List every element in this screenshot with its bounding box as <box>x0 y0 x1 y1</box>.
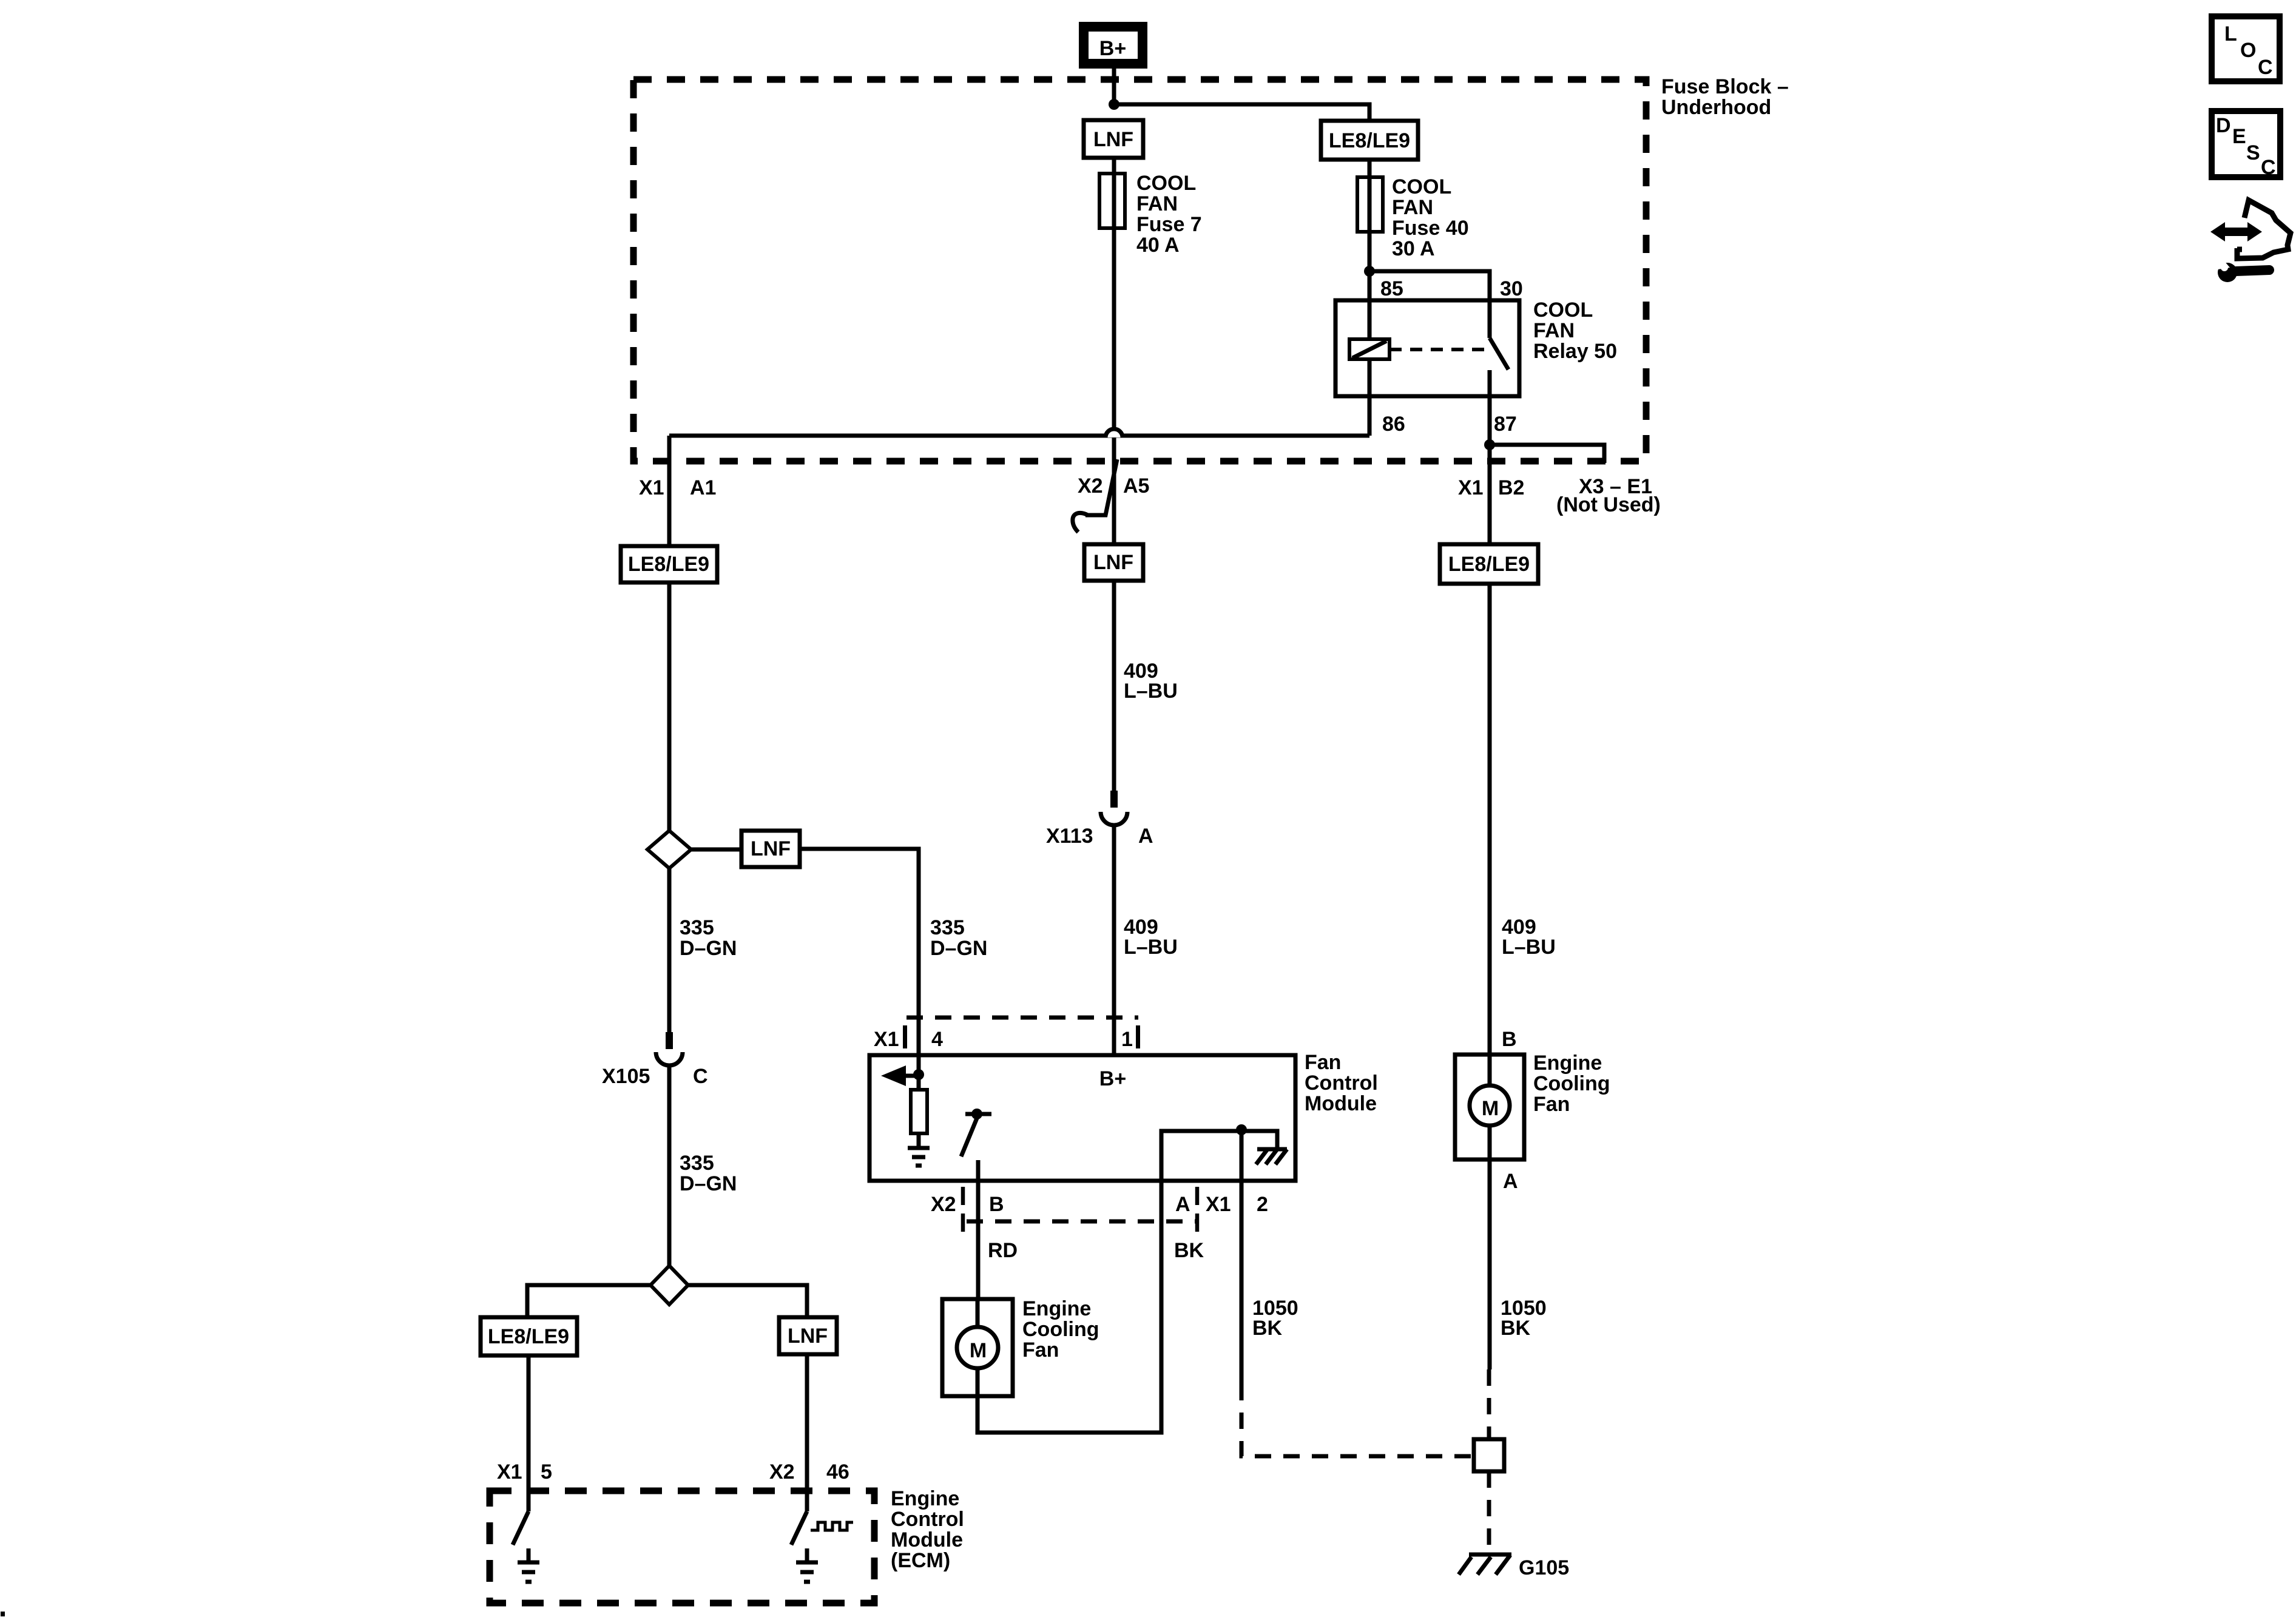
svg-text:(Not Used): (Not Used) <box>1556 493 1661 516</box>
fuse F7 element <box>1099 174 1125 228</box>
svg-text:COOL: COOL <box>1392 175 1451 198</box>
svg-text:4: 4 <box>931 1028 943 1051</box>
wire LNF to ECM <box>805 1354 809 1511</box>
svg-text:BK: BK <box>1501 1317 1531 1340</box>
svg-text:Relay 50: Relay 50 <box>1533 340 1617 363</box>
svg-text:Fan: Fan <box>1533 1093 1570 1116</box>
node FCM pin4 junction <box>913 1069 924 1080</box>
ground ECM right <box>805 1548 809 1562</box>
svg-text:A5: A5 <box>1123 474 1149 498</box>
svg-text:C: C <box>2261 156 2276 179</box>
ground ECM left <box>527 1548 531 1562</box>
splice diamond S2 <box>650 1266 688 1305</box>
svg-text:Fuse 40: Fuse 40 <box>1392 217 1469 240</box>
svg-text:A1: A1 <box>690 476 716 499</box>
connector label LNF (splice branch) <box>741 831 800 867</box>
svg-text:46: 46 <box>826 1460 849 1484</box>
icon harness outline <box>2237 200 2291 258</box>
wire FCM pin 2 down <box>1240 1181 1244 1384</box>
connector label LNF (ECM branch) <box>779 1317 837 1354</box>
node B+ split junction <box>1109 99 1119 110</box>
svg-text:85: 85 <box>1380 277 1403 300</box>
wire right fan A down <box>1488 1126 1492 1369</box>
svg-text:Control: Control <box>891 1508 964 1531</box>
svg-text:Control: Control <box>1305 1072 1378 1095</box>
svg-text:Fan: Fan <box>1022 1338 1059 1362</box>
wire FCM B to left fan <box>976 1181 981 1299</box>
ECM switch right (PWM) <box>791 1511 807 1545</box>
svg-text:30: 30 <box>1500 277 1523 300</box>
svg-text:LNF: LNF <box>1093 551 1133 574</box>
svg-text:87: 87 <box>1494 413 1517 436</box>
svg-text:Fan: Fan <box>1305 1051 1341 1074</box>
wire B+ down <box>1112 69 1116 104</box>
ground G105 <box>1469 1553 1511 1557</box>
svg-text:RD: RD <box>988 1239 1018 1262</box>
svg-text:FAN: FAN <box>1392 196 1433 219</box>
svg-text:X113: X113 <box>1046 825 1093 848</box>
svg-text:G105: G105 <box>1519 1556 1569 1579</box>
svg-text:X105: X105 <box>602 1065 650 1088</box>
svg-text:S: S <box>2246 141 2260 164</box>
svg-text:335: 335 <box>680 1152 714 1175</box>
wire LE8/LE9 to ECM <box>527 1355 531 1511</box>
svg-text:X1: X1 <box>497 1460 522 1484</box>
svg-text:Cooling: Cooling <box>1533 1072 1610 1095</box>
wire relay pin 86 <box>1368 359 1372 436</box>
svg-text:(ECM): (ECM) <box>891 1549 950 1572</box>
svg-text:B: B <box>989 1193 1004 1216</box>
relay coil-contact dashed link <box>1389 348 1484 351</box>
node fuse40/relay85 junction <box>1364 266 1375 277</box>
svg-text:FAN: FAN <box>1136 192 1178 215</box>
svg-text:B: B <box>1502 1028 1517 1051</box>
resistor inside FCM <box>917 1075 921 1090</box>
motor engine cooling fan right <box>1455 1055 1524 1160</box>
svg-text:B+: B+ <box>1099 1067 1126 1090</box>
svg-text:A: A <box>1138 825 1153 848</box>
svg-text:30 A: 30 A <box>1392 237 1435 260</box>
connector label LE8/LE9 (B2 branch) <box>1440 544 1538 584</box>
icon LOC box <box>2212 16 2280 81</box>
svg-text:D–GN: D–GN <box>680 937 737 960</box>
svg-text:X1: X1 <box>1206 1193 1231 1216</box>
svg-text:Underhood: Underhood <box>1661 96 1771 119</box>
relay switch contact <box>1490 338 1508 370</box>
relay coil <box>1349 339 1389 359</box>
connector label LE8/LE9 (fuse 40 usage) <box>1321 121 1418 160</box>
svg-text:C: C <box>693 1065 708 1088</box>
svg-text:L: L <box>2224 22 2237 46</box>
wire left fan return to FCM A <box>977 1181 1161 1433</box>
svg-text:Module: Module <box>891 1528 963 1551</box>
svg-text:5: 5 <box>541 1460 552 1484</box>
icon wiring tool arrow <box>2210 222 2262 241</box>
svg-text:BK: BK <box>1174 1239 1204 1262</box>
svg-text:E: E <box>2232 125 2246 148</box>
wire X105 to diamond 2 <box>667 1065 672 1266</box>
wire 87 to X3-E1 stub <box>1490 445 1604 463</box>
wire diamond2 to ECM X1-5 <box>527 1285 650 1317</box>
switch inside FCM <box>965 1112 991 1116</box>
svg-text:X1: X1 <box>639 476 664 499</box>
fuse F40 element <box>1357 177 1383 232</box>
FCM internal ground net <box>1161 1131 1277 1181</box>
connector label LNF (X2 A5 branch) <box>1084 544 1143 581</box>
ECM dashed border <box>490 1491 874 1603</box>
svg-text:FAN: FAN <box>1533 319 1575 342</box>
fan control module box <box>869 1055 1295 1181</box>
connector label LE8/LE9 (X1 A1 branch) <box>621 546 717 582</box>
chassis ground inside FCM <box>1257 1147 1287 1152</box>
svg-text:X1: X1 <box>1458 476 1484 499</box>
svg-text:Engine: Engine <box>1533 1052 1602 1075</box>
relay K50 box <box>1335 300 1519 396</box>
connector X113 <box>1110 791 1118 808</box>
ECM switch left <box>513 1511 528 1545</box>
svg-text:1: 1 <box>1121 1028 1133 1051</box>
wire splice to G105 dashed <box>1487 1471 1491 1551</box>
wire junction to relay pin 30 <box>1369 271 1490 338</box>
svg-text:Engine: Engine <box>1022 1297 1091 1320</box>
svg-text:C: C <box>2258 56 2273 79</box>
svg-text:LNF: LNF <box>788 1325 828 1348</box>
wire splice to LNF box <box>691 848 741 852</box>
svg-text:A: A <box>1175 1193 1190 1216</box>
svg-text:L–BU: L–BU <box>1124 680 1178 703</box>
svg-text:Fuse Block –: Fuse Block – <box>1661 75 1789 98</box>
page artifact dot <box>1 1612 5 1616</box>
svg-text:X2: X2 <box>1078 474 1103 498</box>
svg-text:B+: B+ <box>1099 37 1126 60</box>
svg-text:D: D <box>2216 114 2231 137</box>
svg-text:M: M <box>1482 1097 1499 1120</box>
connector label LE8/LE9 (ECM branch) <box>481 1317 577 1355</box>
wire hop crossover at B+ feed <box>1106 429 1123 437</box>
wire relay 87 to right fan B <box>1488 445 1492 544</box>
wire LNF splice branch to FCM pin 4 <box>800 849 919 1075</box>
battery feed B+ <box>1079 22 1147 69</box>
wire LNF to X113 <box>1112 579 1116 791</box>
arrow B+ feed inside FCM <box>892 1074 919 1078</box>
svg-text:LNF: LNF <box>751 837 791 860</box>
icon DESC box <box>2212 111 2280 177</box>
svg-text:Engine: Engine <box>891 1487 959 1510</box>
svg-text:X1: X1 <box>874 1028 899 1051</box>
svg-text:335: 335 <box>930 916 965 939</box>
svg-text:LE8/LE9: LE8/LE9 <box>1448 553 1530 576</box>
svg-text:335: 335 <box>680 916 714 939</box>
wire diamond to X105 <box>667 868 672 1033</box>
fan connector dashed lines <box>961 1187 965 1235</box>
wire X113 to FCM pin 1 <box>1112 825 1116 1055</box>
wire LE8/LE9 fuse to relay <box>1368 160 1372 339</box>
svg-text:Cooling: Cooling <box>1022 1318 1099 1341</box>
svg-text:Fuse 7: Fuse 7 <box>1136 213 1202 236</box>
svg-text:L–BU: L–BU <box>1124 936 1178 959</box>
wire X1 A1 branch vertical <box>667 436 672 831</box>
svg-text:COOL: COOL <box>1533 299 1593 322</box>
svg-text:LE8/LE9: LE8/LE9 <box>488 1325 569 1348</box>
svg-text:L–BU: L–BU <box>1502 936 1556 959</box>
wire diamond2 to ECM X2-46 <box>688 1285 807 1317</box>
svg-text:Module: Module <box>1305 1092 1377 1115</box>
splice diamond S1 <box>647 831 691 868</box>
splice box <box>1474 1439 1504 1471</box>
wire LNF box to horizontal run <box>1112 158 1116 428</box>
svg-text:D–GN: D–GN <box>930 937 987 960</box>
svg-text:BK: BK <box>1252 1317 1283 1340</box>
svg-text:LE8/LE9: LE8/LE9 <box>1329 129 1410 152</box>
svg-text:86: 86 <box>1382 413 1405 436</box>
wire 1050 BK dashed right fan to splice <box>1487 1369 1491 1439</box>
wire B+ junction to LE8/LE9 fuse branch <box>1114 104 1369 121</box>
svg-text:O: O <box>2240 39 2256 62</box>
svg-text:40 A: 40 A <box>1136 234 1180 257</box>
icon wrench <box>2218 263 2237 282</box>
connector X105 <box>666 1032 673 1049</box>
svg-text:2: 2 <box>1257 1193 1268 1216</box>
connector label LNF (fuse 7 usage) <box>1084 120 1143 158</box>
wire 1050 BK dashed from FCM 2 to splice <box>1241 1384 1473 1456</box>
svg-text:X2: X2 <box>931 1193 956 1216</box>
svg-text:LNF: LNF <box>1093 128 1133 151</box>
svg-text:B2: B2 <box>1498 476 1524 499</box>
svg-text:COOL: COOL <box>1136 172 1196 195</box>
connector clip symbol at X2 A5 <box>1086 459 1117 515</box>
svg-text:D–GN: D–GN <box>680 1172 737 1195</box>
svg-text:M: M <box>970 1339 987 1362</box>
svg-text:LE8/LE9: LE8/LE9 <box>628 553 709 576</box>
wire relay pin 87 <box>1488 370 1492 445</box>
motor engine cooling fan left <box>942 1299 1013 1396</box>
ground inside FCM <box>908 1146 930 1150</box>
wire 86 horizontal run to X1 A1 <box>669 434 1369 438</box>
FCM connector X1 dashed line <box>907 1016 1138 1020</box>
svg-text:X2: X2 <box>769 1460 795 1484</box>
svg-text:A: A <box>1503 1170 1518 1193</box>
fuse block underhood dashed border <box>633 79 1646 461</box>
node relay87 split <box>1484 439 1495 450</box>
